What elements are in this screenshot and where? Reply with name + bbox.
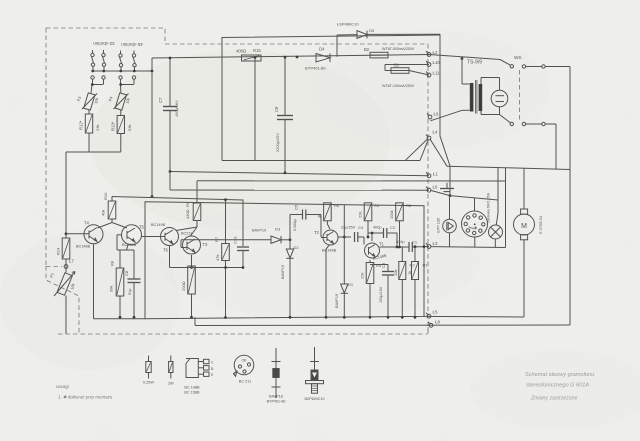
svg-text:C3: C3	[381, 262, 386, 268]
svg-text:22µ/25V: 22µ/25V	[341, 226, 356, 230]
svg-text:Zmiany zastrzeżone: Zmiany zastrzeżone	[530, 396, 578, 402]
svg-text:E 570B.01: E 570B.01	[538, 216, 543, 234]
wire: L3 pickup lamp return	[431, 246, 506, 249]
speed switch 45 pole a	[119, 51, 123, 73]
svg-text:BAVP19: BAVP19	[281, 265, 285, 279]
svg-text:Ł4: Ł4	[433, 130, 438, 135]
capacitor C1	[396, 240, 429, 253]
svg-text:Ł2: Ł2	[433, 50, 438, 55]
svg-text:C7: C7	[158, 97, 163, 103]
svg-text:R1: R1	[423, 263, 429, 268]
svg-text:430Ω: 430Ω	[185, 209, 190, 219]
terminal L8	[428, 320, 440, 328]
svg-text:3k: 3k	[317, 214, 322, 218]
svg-text:2200µ/25V: 2200µ/25V	[275, 133, 280, 152]
wire: switch common bus	[92, 70, 152, 72]
transformer TS primary winding	[470, 83, 474, 112]
junction	[169, 170, 172, 173]
fuse B2	[364, 47, 415, 58]
dashed boundary bottom	[58, 333, 428, 335]
svg-text:M: M	[521, 223, 527, 230]
junction	[151, 195, 154, 198]
svg-text:T5: T5	[139, 225, 145, 230]
capacitor C10	[233, 236, 250, 269]
wire: middle return line	[197, 180, 506, 182]
svg-text:R7: R7	[214, 236, 219, 242]
potentiometer P1	[49, 271, 76, 334]
wire: common line to L1	[170, 172, 429, 176]
terminal L6	[426, 185, 438, 193]
resistor R6	[317, 203, 340, 229]
svg-text:R13*: R13*	[111, 121, 116, 131]
svg-text:400Ω: 400Ω	[236, 49, 246, 54]
wire: vertical from rectifier node to bottom rail	[254, 58, 256, 161]
svg-text:BZP620C10: BZP620C10	[304, 397, 324, 401]
diode D4	[305, 47, 330, 71]
svg-text:BC158B: BC158B	[122, 243, 137, 247]
svg-text:BAVP19: BAVP19	[252, 229, 266, 233]
svg-text:T4: T4	[84, 221, 90, 226]
transistor T4	[66, 221, 103, 319]
svg-text:C10: C10	[233, 236, 238, 244]
speed switch 33 pole b	[102, 50, 106, 72]
svg-text:23k: 23k	[95, 125, 100, 131]
svg-text:żarówka 6V/0,05A: żarówka 6V/0,05A	[487, 193, 491, 223]
resistor R13*	[66, 116, 132, 153]
svg-text:C: C	[211, 361, 214, 365]
svg-text:BYP401-80: BYP401-80	[305, 66, 326, 71]
terminal L9	[427, 112, 439, 119]
svg-text:BC149B: BC149B	[151, 223, 166, 227]
svg-text:T2: T2	[314, 230, 320, 235]
wire: psu rail to L4	[420, 140, 428, 161]
diode D5 arrester branch	[337, 22, 440, 57]
svg-text:Ł10: Ł10	[433, 60, 441, 65]
svg-text:C5: C5	[294, 204, 299, 210]
svg-text:Schemat ideowy gramofonu: Schemat ideowy gramofonu	[525, 372, 594, 378]
svg-text:R12*: R12*	[79, 120, 84, 130]
wire: mains bus 220V top	[152, 55, 429, 59]
junction	[65, 232, 68, 235]
svg-text:ŁSP480C10: ŁSP480C10	[337, 22, 359, 27]
svg-text:Ł8: Ł8	[435, 320, 440, 325]
capacitor C9	[274, 57, 293, 172]
neon lamp across secondary	[481, 78, 508, 115]
wire: T1 collector node	[371, 232, 409, 249]
svg-text:40k: 40k	[101, 210, 106, 216]
svg-text:C8: C8	[124, 270, 129, 276]
capacitor C3	[370, 262, 394, 319]
resistor R15	[236, 48, 261, 61]
svg-text:47k: 47k	[215, 255, 220, 261]
lower contacts row left pair	[91, 76, 105, 93]
wire: motor assembly top rail	[447, 166, 570, 169]
lower contacts row right pair	[119, 76, 136, 93]
capacitor C4	[338, 225, 364, 245]
legend resistor 0.25W	[143, 356, 154, 385]
resistor R10	[98, 192, 128, 228]
diode D1	[335, 282, 354, 319]
svg-text:R8: R8	[110, 260, 115, 266]
svg-text:100k: 100k	[389, 210, 394, 219]
svg-text:Ł7: Ł7	[69, 259, 74, 264]
svg-text:R10: R10	[103, 192, 108, 200]
svg-text:BC 148B: BC 148B	[184, 386, 200, 390]
transistor T2	[314, 215, 338, 253]
wire: motor box right edge	[569, 169, 571, 325]
svg-text:91µ: 91µ	[128, 288, 132, 295]
transistor T5	[117, 225, 145, 251]
svg-text:22k: 22k	[358, 212, 363, 218]
resistor R3	[389, 203, 412, 247]
svg-text:Ł1: Ł1	[433, 172, 438, 177]
junction	[284, 56, 287, 59]
resistor R14	[56, 238, 70, 273]
junction	[284, 171, 287, 174]
speed switch 45 pole b	[132, 51, 136, 73]
svg-text:T1: T1	[379, 242, 385, 247]
svg-text:Ł9: Ł9	[434, 112, 439, 117]
wire: secondary return line to L8	[195, 317, 570, 325]
svg-text:BAVP19: BAVP19	[335, 294, 339, 308]
wire: L6 to pickup and socket	[431, 168, 498, 226]
wire: right side drop	[569, 67, 571, 170]
wire: left column down to input divider	[65, 152, 67, 238]
wire: L6 line	[170, 172, 429, 191]
terminal L1	[426, 172, 438, 178]
wire: arrester column down	[440, 34, 450, 196]
DIN socket view	[462, 211, 488, 247]
resistor R11	[170, 266, 244, 319]
svg-text:WTAT-100mA/250V: WTAT-100mA/250V	[382, 84, 415, 88]
svg-text:R2: R2	[410, 263, 416, 268]
svg-text:R15: R15	[253, 48, 261, 53]
wire: collector node column	[343, 205, 346, 285]
terminal L7	[64, 259, 74, 269]
svg-text:R3: R3	[406, 203, 412, 208]
diode D3	[250, 227, 291, 244]
legend transistor package BC148B BC158B	[184, 359, 214, 395]
wire: L4 feeds motor rail	[430, 139, 447, 166]
svg-text:Uwagi: Uwagi	[56, 384, 70, 389]
svg-text:D2: D2	[294, 245, 300, 250]
svg-text:B2: B2	[364, 47, 370, 52]
svg-text:BC 158B: BC 158B	[184, 391, 200, 395]
wire: supply rail into amp	[112, 197, 243, 247]
wire: amp ground rail to L5 and motor	[94, 316, 525, 318]
svg-text:BC211: BC211	[181, 232, 192, 236]
svg-text:39k: 39k	[109, 286, 114, 292]
terminal L4	[426, 130, 438, 140]
dashed boundary lower-left jog	[46, 266, 79, 334]
resistor R9	[176, 201, 201, 236]
diode D2	[281, 240, 299, 319]
dashed stub to terminal L7	[46, 266, 62, 268]
resistor R12*	[79, 114, 101, 152]
svg-text:400p: 400p	[373, 226, 381, 230]
svg-text:BYP401-80: BYP401-80	[267, 400, 286, 404]
junction	[461, 57, 464, 60]
svg-text:T3: T3	[203, 242, 209, 247]
svg-text:TS-9/9: TS-9/9	[467, 60, 482, 66]
capacitor C2	[368, 225, 397, 247]
junction	[151, 70, 154, 73]
svg-text:63k: 63k	[127, 125, 132, 131]
capacitor C7	[158, 57, 179, 172]
svg-text:R9: R9	[185, 201, 190, 207]
svg-text:45 obr/min: 45 obr/min	[121, 42, 143, 47]
legend resistor 2W	[168, 356, 174, 386]
resistor R8	[109, 250, 124, 319]
svg-text:200Ω: 200Ω	[181, 281, 186, 291]
wire: psu rail to L4 second branch	[405, 139, 428, 161]
terminal L3	[426, 241, 438, 248]
transistor T6	[142, 223, 179, 268]
svg-text:C2: C2	[390, 225, 396, 230]
wire: L2 to mains switch	[429, 55, 500, 60]
svg-text:C1: C1	[412, 240, 418, 245]
svg-text:T6: T6	[163, 248, 169, 253]
resistor R5	[360, 260, 382, 319]
resistor R7	[214, 200, 229, 319]
transistor T3	[181, 232, 250, 267]
svg-text:C9: C9	[274, 106, 279, 112]
svg-text:BC148B: BC148B	[76, 245, 91, 249]
transistor T1	[365, 242, 388, 261]
resistor R4	[358, 203, 380, 239]
svg-text:OB: OB	[242, 359, 248, 363]
svg-text:BAVP18: BAVP18	[269, 395, 283, 399]
capacitor C8	[124, 250, 141, 319]
svg-text:0,066µ: 0,066µ	[293, 218, 297, 231]
resistor R1	[407, 247, 428, 319]
thermistor P3	[77, 93, 99, 114]
wire: lamp return riser	[505, 168, 507, 248]
thermistor P4	[108, 93, 130, 116]
motor M	[514, 168, 544, 317]
capacitor C5	[290, 204, 321, 240]
svg-text:B1: B1	[394, 63, 400, 68]
svg-text:Ł3: Ł3	[433, 241, 438, 246]
svg-text:Ł5: Ł5	[433, 310, 438, 315]
transformer TS secondary winding	[479, 84, 483, 111]
pickup cartridge EPP 130	[436, 217, 457, 247]
amplifier module box	[145, 202, 424, 319]
legend diode BAVP18 BYP401	[267, 348, 286, 404]
svg-text:33 obr/min: 33 obr/min	[93, 41, 115, 46]
svg-text:0,25W: 0,25W	[143, 381, 154, 385]
svg-text:WTAT-500mA/250V: WTAT-500mA/250V	[382, 47, 415, 51]
svg-text:D5: D5	[369, 28, 375, 33]
wire: T2 emitter down	[325, 245, 330, 319]
svg-text:620p: 620p	[396, 240, 404, 244]
svg-text:D1: D1	[348, 282, 354, 287]
svg-text:R14: R14	[56, 247, 61, 255]
svg-text:D4: D4	[319, 47, 325, 52]
svg-text:R4: R4	[374, 203, 380, 208]
dashed mechanical link of switch WS	[519, 70, 521, 122]
dashed boundary left side	[45, 28, 47, 266]
legend transistor BC211 bottom view	[234, 355, 254, 383]
svg-text:1k: 1k	[407, 271, 412, 275]
svg-text:Ł6: Ł6	[433, 185, 438, 190]
chassis ground	[440, 183, 454, 192]
resistor R2	[393, 247, 415, 319]
terminal L11	[426, 71, 440, 77]
svg-text:BC148B: BC148B	[322, 249, 337, 253]
junction	[296, 56, 299, 59]
terminal L5	[426, 310, 438, 319]
wire: feed from switch bus down to amp rail	[151, 58, 153, 197]
power supply module solid box	[222, 35, 440, 161]
terminal L2	[426, 50, 438, 56]
switch WS upper pole	[500, 55, 570, 68]
svg-text:1. ✱ dobierać przy montażu: 1. ✱ dobierać przy montażu	[58, 395, 113, 400]
svg-text:22k: 22k	[360, 273, 365, 279]
speed switch 33 pole a	[91, 50, 95, 72]
svg-text:WS: WS	[514, 55, 521, 60]
svg-text:400µ/16V: 400µ/16V	[174, 100, 179, 117]
svg-text:Ł11: Ł11	[433, 71, 441, 76]
svg-text:BC 211: BC 211	[239, 380, 251, 384]
svg-text:100µ/10V: 100µ/10V	[379, 286, 383, 303]
dashed boundary right terminal strip	[427, 44, 429, 334]
wire: lower pole down to motor rail	[555, 124, 557, 169]
svg-text:R6: R6	[334, 203, 340, 208]
switch WS lower pole	[500, 115, 557, 126]
svg-text:2W: 2W	[168, 382, 174, 386]
transformer TS core	[475, 80, 477, 114]
svg-text:stereofonicznego G 601A: stereofonicznego G 601A	[526, 383, 589, 389]
wire: transformer primary top feed	[462, 59, 470, 111]
indicator lamp	[487, 193, 503, 248]
svg-text:C4: C4	[358, 225, 364, 230]
svg-text:10k: 10k	[393, 270, 398, 276]
legend diode BZP620C10 stud	[304, 347, 324, 401]
wire: L9 to transformer primary return	[430, 110, 462, 121]
svg-text:D3: D3	[275, 227, 281, 232]
svg-text:EPP 130: EPP 130	[436, 217, 441, 233]
fuse B1 loop	[382, 63, 429, 89]
terminal L10	[426, 60, 440, 66]
dashed boundary top-left segment	[46, 28, 520, 334]
wire: T5 T6 bias node	[117, 244, 134, 250]
